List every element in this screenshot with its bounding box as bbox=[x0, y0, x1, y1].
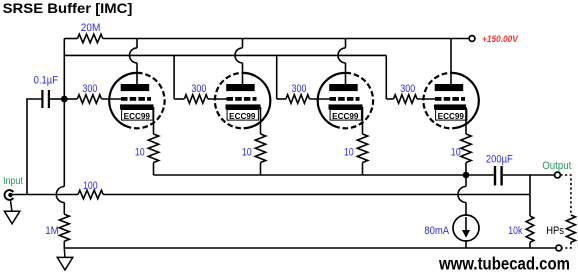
wire 10k to ground rail bbox=[529, 242, 531, 248]
current source 80mA bbox=[453, 215, 479, 241]
svg-text:Input: Input bbox=[3, 176, 23, 187]
ground input bbox=[4, 200, 19, 224]
wire B+ rail left bbox=[64, 38, 77, 40]
wire cathode to bus stage 4 bbox=[465, 163, 467, 176]
resistor 300 stage 1 bbox=[77, 95, 101, 104]
resistor 10 stage 3 bbox=[357, 134, 367, 163]
wire plate lead tube 4 bbox=[450, 39, 452, 86]
wire cathode lead tube 1 bbox=[153, 107, 155, 134]
wire hop current source bbox=[458, 187, 466, 203]
svg-text:www.tubecad.com: www.tubecad.com bbox=[438, 254, 570, 274]
resistor 10k bbox=[526, 216, 534, 242]
resistor 1M bbox=[59, 214, 69, 241]
svg-text:20M: 20M bbox=[81, 22, 101, 34]
svg-text:10: 10 bbox=[451, 147, 461, 159]
resistor 100 bbox=[78, 190, 103, 199]
wire cathode to bus stage 1 bbox=[153, 163, 155, 176]
svg-text:ECC99: ECC99 bbox=[332, 112, 359, 121]
svg-text:1M: 1M bbox=[45, 225, 59, 237]
wire current source upper bbox=[465, 175, 467, 187]
triode U2 ECC99 bbox=[215, 73, 270, 128]
svg-text:ECC99: ECC99 bbox=[438, 112, 465, 121]
svg-text:HPs: HPs bbox=[546, 225, 564, 237]
resistor 300 stage 3 bbox=[286, 95, 310, 104]
wire plate hop tube 3 bbox=[338, 48, 345, 63]
svg-text:300: 300 bbox=[191, 83, 206, 95]
wire cathode to bus stage 3 bbox=[362, 163, 364, 176]
wire plate lead tube 1 upper bbox=[136, 39, 138, 48]
svg-text:10: 10 bbox=[242, 147, 252, 159]
svg-text:Output: Output bbox=[542, 160, 571, 172]
wire cathode lead tube 3 bbox=[362, 107, 364, 134]
triode U1 ECC99 bbox=[109, 73, 164, 128]
triode U4 ECC99 bbox=[423, 73, 478, 128]
wire ground rail bbox=[64, 247, 556, 249]
wire B+ rail bbox=[103, 38, 469, 40]
svg-text:SRSE Buffer [IMC]: SRSE Buffer [IMC] bbox=[3, 1, 133, 17]
svg-text:300: 300 bbox=[82, 83, 97, 95]
terminal +150V bbox=[469, 36, 475, 42]
wire cathode lead tube 2 bbox=[260, 107, 262, 134]
svg-text:80mA: 80mA bbox=[424, 225, 449, 237]
terminal output return bbox=[556, 245, 562, 251]
wire cathode to bus stage 2 bbox=[260, 163, 262, 176]
wire plate lead tube 2 lower bbox=[242, 63, 244, 85]
wire output to 10k bbox=[529, 175, 531, 216]
svg-text:300: 300 bbox=[292, 83, 307, 95]
node grid junction bbox=[61, 96, 68, 103]
capacitor 200uF bbox=[494, 166, 503, 186]
wire input line bbox=[13, 194, 79, 196]
triode U3 ECC99 bbox=[318, 73, 373, 128]
wire grid drop stage 4 bbox=[385, 55, 387, 99]
wire hop over input line bbox=[56, 187, 64, 203]
wire plate hop tube 2 bbox=[235, 48, 243, 63]
wire grid bus bbox=[64, 54, 386, 56]
resistor 10 stage 4 bbox=[461, 134, 471, 163]
svg-text:+150.00V: +150.00V bbox=[482, 34, 519, 45]
wire input line to output node bbox=[103, 194, 530, 196]
resistor 300 stage 2 bbox=[184, 95, 208, 104]
wire grid lead-in stage 1 bbox=[64, 98, 77, 100]
wire plate lead tube 3 lower bbox=[345, 63, 347, 85]
wire left vertical bbox=[63, 39, 65, 187]
wire grid drop stage 2 bbox=[173, 55, 175, 99]
wire headphone dashed top bbox=[560, 175, 571, 215]
svg-text:0.1µF: 0.1µF bbox=[34, 75, 59, 87]
svg-text:10: 10 bbox=[344, 147, 354, 159]
wire grid lead-in stage 4 bbox=[386, 98, 393, 100]
ground main bbox=[57, 248, 73, 270]
svg-text:ECC99: ECC99 bbox=[229, 112, 256, 121]
wire plate lead tube 3 upper bbox=[345, 39, 347, 48]
resistor HPs bbox=[566, 215, 575, 242]
wire plate lead tube 2 upper bbox=[242, 39, 244, 48]
wire output node bbox=[503, 174, 555, 176]
wire grid to tube 4 bbox=[417, 98, 435, 100]
wire current source to ground rail bbox=[465, 241, 467, 248]
wire grid drop stage 3 bbox=[276, 55, 278, 99]
capacitor 0.1uF bbox=[41, 90, 50, 108]
wire grid lead-in stage 3 bbox=[277, 98, 286, 100]
terminal Input jack bbox=[5, 190, 14, 200]
wire grid to tube 3 bbox=[310, 98, 331, 100]
svg-text:10: 10 bbox=[135, 147, 145, 159]
wire grid lead-in stage 2 bbox=[174, 98, 184, 100]
wire to 1M bbox=[63, 203, 65, 215]
wire cap to grid node bbox=[50, 98, 64, 100]
svg-text:200µF: 200µF bbox=[486, 153, 513, 165]
wire cathode bus bbox=[154, 174, 494, 176]
resistor 20M bbox=[78, 34, 103, 43]
wire cathode lead tube 4 bbox=[465, 107, 467, 134]
wire headphone dashed bottom bbox=[562, 242, 571, 248]
resistor 300 stage 4 bbox=[394, 95, 418, 104]
resistor 10 stage 1 bbox=[148, 134, 158, 163]
wire 1M to ground rail bbox=[63, 241, 65, 248]
wire plate lead tube 1 lower bbox=[136, 63, 138, 85]
node cathode junction bbox=[463, 172, 470, 179]
resistor 10 stage 2 bbox=[255, 134, 265, 163]
svg-text:300: 300 bbox=[400, 83, 415, 95]
svg-text:ECC99: ECC99 bbox=[124, 112, 151, 121]
wire grid to tube 1 bbox=[102, 98, 123, 100]
svg-text:100: 100 bbox=[83, 180, 97, 192]
wire cap left branch bbox=[27, 99, 41, 195]
terminal Output bbox=[555, 172, 561, 178]
svg-text:10k: 10k bbox=[508, 225, 522, 237]
wire plate hop tube 1 bbox=[130, 48, 137, 63]
wire current source mid bbox=[465, 203, 467, 216]
wire grid to tube 2 bbox=[208, 98, 227, 100]
